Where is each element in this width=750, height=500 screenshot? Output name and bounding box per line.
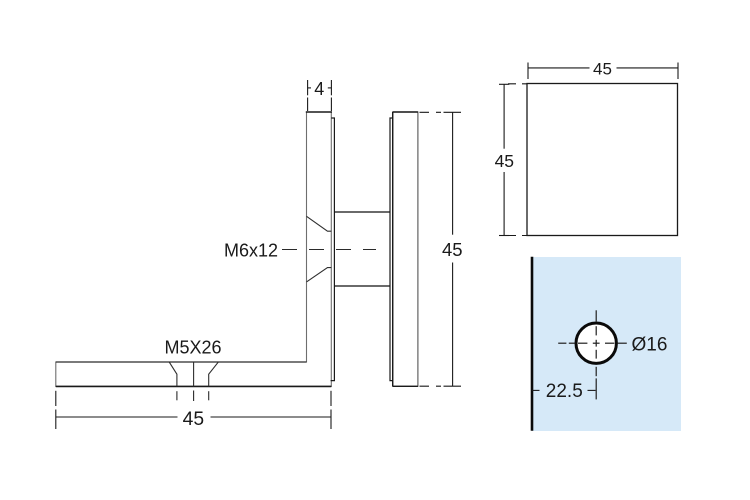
hole Ø16 [576,323,616,363]
gasket plate right (thin) [390,118,393,381]
svg-text:22.5: 22.5 [546,381,583,402]
centerline of M6 screw [282,249,376,251]
svg-text:4: 4 [314,79,324,99]
dimension 22.5 (edge to hole center) [532,389,596,391]
svg-text:Ø16: Ø16 [632,334,668,355]
glass panel [532,257,681,431]
gasket plate left (thin) [331,118,335,381]
hole centerline horizontal [558,342,627,344]
dimension 4 (plate thickness) [308,80,332,111]
svg-text:M6x12: M6x12 [224,240,278,260]
svg-text:45: 45 [442,239,463,260]
cylinder boss [334,212,390,286]
clamp plate (edge view) [393,112,418,386]
svg-text:M5X26: M5X26 [164,338,221,358]
countersunk hole M5 in base leg [169,362,218,386]
dimension 45 (base length) [56,391,331,429]
hole centerline vertical [595,310,597,399]
svg-text:45: 45 [495,151,514,171]
dimension 45 (top width) [528,63,678,80]
dimension 45 (clamp plate height, right of side view) [420,112,462,386]
L-bracket wall plate outline [56,112,332,386]
svg-text:45: 45 [593,59,612,78]
square plate 45x45 [527,84,678,236]
hole axis dashes below base [177,391,209,402]
svg-text:45: 45 [183,409,204,430]
glass edge (thick) [531,257,534,431]
dimension 45 (left height) [499,84,527,236]
countersunk hole M6 in wall plate [307,216,332,282]
